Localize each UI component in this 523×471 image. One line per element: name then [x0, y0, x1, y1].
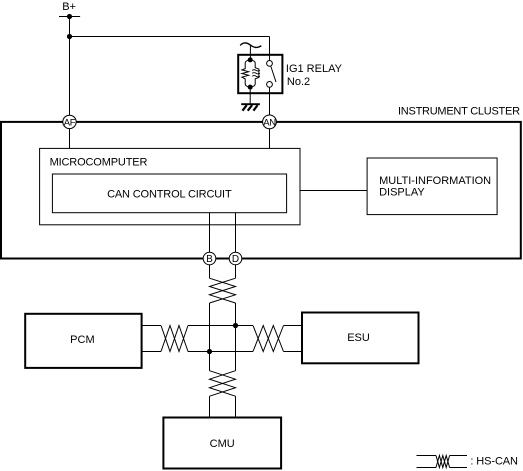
svg-text:D: D — [232, 254, 239, 265]
svg-text:IG1 RELAY: IG1 RELAY — [286, 63, 343, 75]
svg-text:No.2: No.2 — [287, 76, 310, 88]
svg-text:DISPLAY: DISPLAY — [379, 186, 425, 198]
svg-text:: HS-CAN: : HS-CAN — [470, 456, 518, 468]
svg-text:B+: B+ — [62, 1, 76, 13]
svg-text:MULTI-INFORMATION: MULTI-INFORMATION — [379, 175, 491, 187]
svg-text:INSTRUMENT CLUSTER: INSTRUMENT CLUSTER — [398, 106, 520, 118]
svg-text:AN: AN — [263, 117, 276, 128]
svg-text:MICROCOMPUTER: MICROCOMPUTER — [50, 156, 148, 168]
svg-text:ESU: ESU — [347, 332, 370, 344]
svg-text:B: B — [206, 254, 213, 265]
svg-text:PCM: PCM — [70, 334, 94, 346]
svg-text:AF: AF — [64, 117, 76, 128]
svg-text:CMU: CMU — [210, 438, 235, 450]
svg-text:CAN CONTROL CIRCUIT: CAN CONTROL CIRCUIT — [107, 189, 232, 201]
